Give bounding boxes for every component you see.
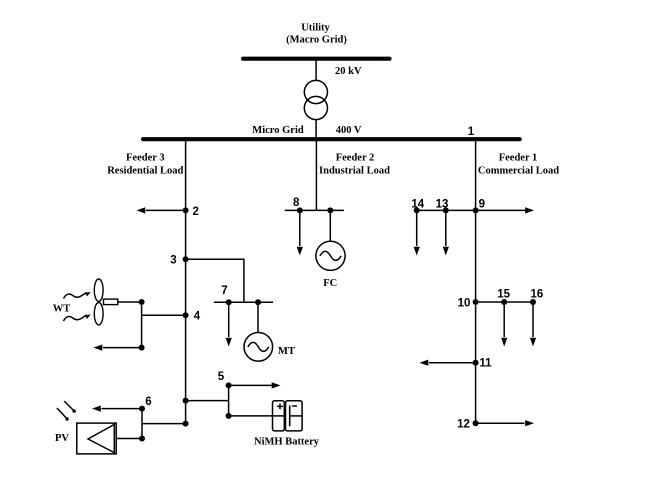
wire: WT vertical xyxy=(141,302,143,348)
junction dot node 5 feed xyxy=(183,398,189,404)
node 10 xyxy=(458,297,479,309)
svg-text:Feeder 2: Feeder 2 xyxy=(336,153,375,164)
wire: feeder 3 main vertical xyxy=(185,140,187,424)
wire: PV lead xyxy=(116,438,142,440)
svg-text:2: 2 xyxy=(192,206,198,218)
svg-text:Industrial Load: Industrial Load xyxy=(319,166,390,177)
svg-text:PV: PV xyxy=(55,433,69,444)
battery NiMH xyxy=(273,401,303,431)
svg-text:Feeder 3: Feeder 3 xyxy=(126,153,165,164)
svg-text:8: 8 xyxy=(293,197,300,209)
svg-text:(Macro Grid): (Macro Grid) xyxy=(286,34,347,45)
node 6 xyxy=(139,396,152,412)
svg-text:Residential Load: Residential Load xyxy=(107,166,183,177)
svg-text:11: 11 xyxy=(479,358,492,370)
node 13 xyxy=(436,199,449,214)
wire: node 11 load line xyxy=(429,362,476,364)
load arrow at node 11 xyxy=(420,360,429,366)
load arrow at node 16 xyxy=(530,338,536,347)
wire: node 6 vertical xyxy=(141,409,143,439)
bus: node 9 bus xyxy=(417,209,526,211)
wind squiggle lower xyxy=(64,314,91,321)
svg-text:400 V: 400 V xyxy=(336,125,362,136)
junction dot WT top xyxy=(139,299,145,305)
node 16 xyxy=(530,289,543,306)
svg-text:Commercial Load: Commercial Load xyxy=(478,166,559,177)
bus: node 7 bus xyxy=(214,301,273,303)
wire: utility bus to transformer xyxy=(315,61,317,81)
wind turbine WT: hub xyxy=(104,299,118,305)
svg-text:20 kV: 20 kV xyxy=(335,66,362,77)
svg-text:3: 3 xyxy=(170,255,176,267)
junction dot FC tap xyxy=(327,207,333,213)
node 9 xyxy=(473,199,485,214)
svg-text:15: 15 xyxy=(497,289,510,301)
label Feeder 1 / Commercial Load xyxy=(478,153,559,177)
wire: node 15 load line xyxy=(503,302,505,337)
label Feeder 3 / Residential Load xyxy=(107,153,183,177)
svg-text:WT: WT xyxy=(53,304,71,315)
load arrow at node 8 xyxy=(297,247,303,256)
sun ray 1 xyxy=(64,401,76,413)
generator FC xyxy=(316,241,345,270)
node 2 xyxy=(183,206,199,218)
wire: node 3 branch to node 7 bus xyxy=(186,259,244,302)
node 5 xyxy=(218,371,232,389)
wire: node 16 load line xyxy=(532,302,534,337)
wire: feeder to node 5 xyxy=(186,400,229,402)
wire: feeder 1 vertical xyxy=(475,140,477,423)
node 11 xyxy=(473,358,493,370)
load arrow at node 7 xyxy=(226,338,232,347)
junction dot MT tap xyxy=(255,299,261,305)
load arrow WT branch xyxy=(94,345,103,351)
generator MT xyxy=(244,333,273,362)
junction dot battery link xyxy=(226,413,232,419)
wire: node 4 branch to WT xyxy=(142,314,186,316)
wire: WT load line xyxy=(103,347,142,349)
svg-text:Micro Grid: Micro Grid xyxy=(252,125,304,136)
wind turbine WT: blades xyxy=(94,279,103,325)
wire: node 7 load line xyxy=(228,302,230,337)
wire: feeder 2 vertical xyxy=(315,140,317,210)
wire: FC lead xyxy=(329,210,331,241)
svg-text:16: 16 xyxy=(531,289,544,301)
svg-text:FC: FC xyxy=(323,278,337,289)
wire: hub to vertical xyxy=(118,301,142,303)
svg-text:1: 1 xyxy=(468,126,475,138)
svg-text:7: 7 xyxy=(221,285,227,297)
svg-text:9: 9 xyxy=(479,199,485,211)
wind squiggle upper xyxy=(64,292,91,299)
svg-text:12: 12 xyxy=(457,418,470,430)
svg-text:14: 14 xyxy=(411,199,424,211)
wire: link to feeder bottom xyxy=(142,423,186,425)
arrow right at node 9 xyxy=(525,207,534,213)
wire: node 14 load line xyxy=(416,210,418,246)
node 12 xyxy=(457,418,478,430)
svg-text:4: 4 xyxy=(194,311,201,323)
load arrow at node 6 xyxy=(92,406,101,412)
svg-text:MT: MT xyxy=(278,346,295,357)
svg-text:13: 13 xyxy=(436,199,449,211)
bus: utility 20 kV bus xyxy=(243,57,390,61)
transformer T1 xyxy=(304,80,327,119)
label Feeder 2 / Industrial Load xyxy=(319,153,390,177)
junction dot feeder 3 bottom xyxy=(183,421,189,427)
node 15 xyxy=(497,289,510,306)
arrow right at node 12 xyxy=(525,420,534,426)
wire: node 2 load line xyxy=(146,209,186,211)
svg-text:Utility: Utility xyxy=(301,23,330,34)
svg-text:6: 6 xyxy=(145,396,151,408)
wire: battery lead xyxy=(229,415,285,417)
load arrow at node 13 xyxy=(443,247,449,256)
load arrow at node 14 xyxy=(414,247,420,256)
svg-text:10: 10 xyxy=(458,297,471,309)
node 8 xyxy=(293,197,303,214)
bus: node 10 bus xyxy=(476,301,533,303)
node 14 xyxy=(411,199,424,214)
PV module xyxy=(77,423,116,454)
node 4 xyxy=(183,311,201,323)
svg-text:Feeder 1: Feeder 1 xyxy=(499,153,538,164)
node 3 xyxy=(170,255,188,267)
bus: micro grid 400 V bus xyxy=(143,137,520,141)
load arrow at node 2 xyxy=(137,207,146,213)
wire: node 8 load line xyxy=(299,210,301,246)
node label: Utility (Macro Grid) xyxy=(286,23,347,46)
wire: node 5 export line xyxy=(229,384,273,386)
wire: transformer to micro grid bus xyxy=(315,119,317,138)
junction dot WT bottom xyxy=(139,345,145,351)
wire: node 13 load line xyxy=(445,210,447,246)
load arrow at node 15 xyxy=(501,338,507,347)
wire: node 5 vertical xyxy=(228,385,230,416)
sun ray 2 xyxy=(57,408,69,421)
arrow right at node 5 xyxy=(272,382,281,388)
wire: node 6 load line xyxy=(102,408,143,410)
junction dot PV link xyxy=(139,436,145,442)
svg-text:NiMH Battery: NiMH Battery xyxy=(254,437,320,448)
svg-text:5: 5 xyxy=(218,371,225,383)
bus: node 8 bus xyxy=(285,209,344,211)
junction dot node 7 load xyxy=(226,299,232,305)
wire: node 12 export line xyxy=(476,422,525,424)
wire: MT lead xyxy=(257,302,259,332)
